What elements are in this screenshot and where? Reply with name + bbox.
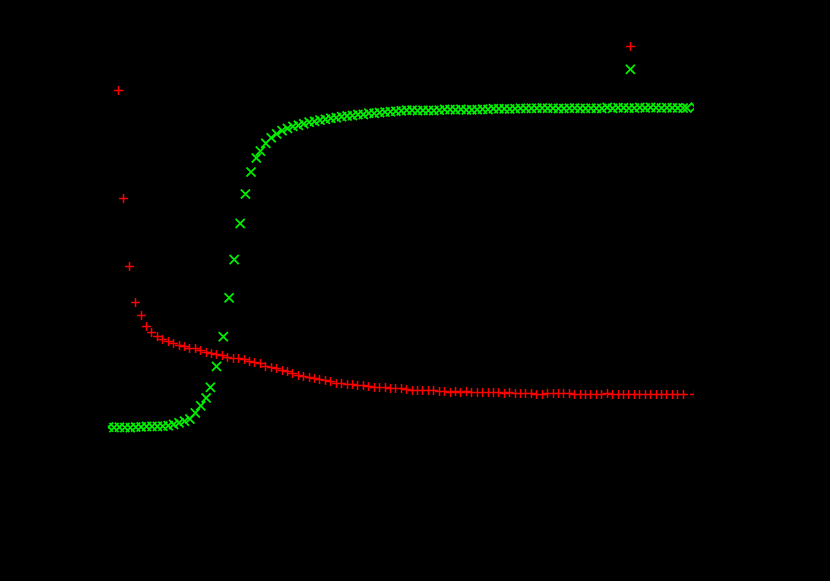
- legend key: red +: [626, 42, 635, 51]
- legend key: green x: [626, 65, 635, 74]
- green series (x markers): [104, 103, 700, 433]
- red series (+ markers): [114, 86, 699, 399]
